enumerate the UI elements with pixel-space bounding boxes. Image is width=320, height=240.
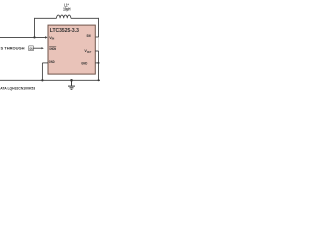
svg-text:VOUT: VOUT [84, 49, 91, 54]
svg-text:VIN: VIN [49, 36, 54, 41]
wire VIN input [0, 36, 46, 38]
wire GND left drop [41, 63, 43, 80]
wire ground bus [0, 79, 100, 81]
IC U1 LTC3525-3.3 body [48, 25, 95, 74]
node bus right junction [98, 79, 100, 81]
svg-text:SHDN: SHDN [49, 47, 56, 51]
wire top: inductor right to SW drop [71, 17, 99, 19]
inductor L1 [57, 15, 71, 18]
svg-text:10µH: 10µH [63, 6, 70, 11]
svg-text:LTC3525-3.3: LTC3525-3.3 [50, 28, 79, 34]
svg-text:GND: GND [81, 61, 87, 65]
svg-text:ON: ON [30, 47, 33, 51]
wire SHDN arrow [33, 47, 42, 49]
svg-text:SW: SW [87, 34, 92, 38]
svg-text:ATA LQH32CN100K53: ATA LQH32CN100K53 [0, 86, 35, 90]
background [0, 0, 100, 100]
wire VOUT lead [95, 50, 98, 52]
node VIN junction [33, 36, 35, 38]
wire: SW drop [98, 18, 100, 37]
node bus left junction [41, 79, 43, 81]
wire right vertical VOUT/GND to ground bus [98, 51, 100, 80]
wire GND left lead [42, 62, 48, 64]
wire top: VIN riser to inductor left [35, 17, 57, 19]
arrowhead into VIN pin [45, 36, 47, 39]
wire: left riser [34, 18, 36, 38]
ground symbol [70, 79, 73, 82]
svg-text:GND: GND [49, 60, 55, 64]
node GND right junction [98, 62, 100, 64]
wire: SW lead [95, 36, 98, 38]
box ON [29, 46, 34, 51]
wire faint ghost segment right rail [98, 37, 100, 51]
svg-text:S THROUGH: S THROUGH [1, 46, 25, 51]
wire GND right lead [95, 62, 98, 64]
